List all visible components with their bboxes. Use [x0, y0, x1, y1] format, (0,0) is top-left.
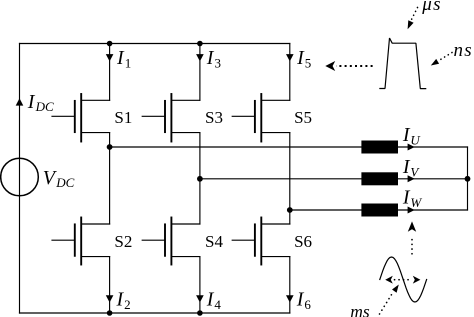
wire star tie	[467, 147, 469, 210]
node V	[197, 176, 203, 182]
svg-text:I: I	[116, 47, 125, 69]
current arrow I2	[106, 295, 114, 302]
wire S6 source to bottom rail corner	[289, 257, 291, 313]
svg-text:V: V	[410, 165, 420, 180]
label I4	[206, 288, 222, 312]
svg-text:U: U	[410, 132, 421, 147]
current arrow IV	[408, 175, 415, 182]
wire leg2 drain (top rail to S3)	[199, 44, 201, 101]
node U	[107, 144, 113, 150]
transistor S1	[52, 94, 110, 142]
svg-text:W: W	[410, 195, 422, 210]
dotted arrow sine to IW	[408, 221, 416, 253]
svg-text:S3: S3	[205, 108, 223, 127]
node W	[287, 207, 293, 213]
wire left DC bus	[19, 44, 21, 314]
dotted double arrow sine period	[385, 276, 420, 284]
node top rail leg2	[197, 41, 203, 47]
wire top rail	[20, 43, 290, 45]
svg-text:I: I	[27, 91, 36, 113]
svg-text:5: 5	[305, 55, 312, 70]
load U	[361, 141, 398, 154]
label microseconds	[421, 0, 442, 15]
svg-text:S2: S2	[114, 232, 132, 251]
wire node U to S2 drain	[109, 147, 111, 224]
label I3	[206, 47, 221, 71]
current arrow I5	[286, 54, 294, 61]
transistor S6	[232, 218, 290, 265]
label S5	[294, 108, 312, 127]
svg-text:3: 3	[215, 55, 222, 70]
current arrow I3	[196, 54, 204, 61]
current arrow IW	[408, 207, 415, 214]
svg-text:1: 1	[125, 55, 132, 70]
svg-text:μs: μs	[421, 0, 442, 15]
label S6	[294, 232, 312, 251]
transistor S2	[52, 218, 110, 265]
current arrow I1	[106, 54, 114, 61]
wire S1 source to node U	[109, 133, 111, 147]
label S4	[205, 232, 223, 251]
label I1	[116, 47, 131, 71]
svg-text:S5: S5	[294, 108, 312, 127]
label I6	[296, 288, 312, 312]
current arrow IU	[408, 144, 415, 151]
wire node V to S4 drain	[199, 179, 201, 224]
label IW	[402, 186, 423, 210]
svg-text:ms: ms	[350, 301, 370, 317]
wire S2 source to bottom rail	[109, 257, 111, 313]
wire leg3 drain (top rail corner to S5)	[289, 44, 291, 101]
wire phase W	[290, 209, 468, 211]
svg-text:2: 2	[124, 297, 131, 312]
svg-text:ns: ns	[454, 40, 474, 61]
transistor S3	[142, 94, 200, 142]
dotted arrow ms to sine	[380, 285, 399, 315]
dotted arrow pulse to inverter	[325, 61, 372, 71]
label IV	[402, 156, 421, 180]
wire S5 source to node W	[289, 133, 291, 210]
dotted arrow ns to pulse	[431, 53, 452, 66]
transistor S4	[142, 218, 200, 265]
label I5	[296, 47, 311, 71]
svg-text:I: I	[206, 47, 215, 69]
wire S4 source to bottom rail	[199, 257, 201, 313]
wire bottom rail	[20, 312, 290, 314]
node star point	[465, 176, 471, 182]
wire node W to S6 drain	[289, 210, 291, 224]
label S3	[205, 108, 223, 127]
transistor S5	[232, 94, 290, 142]
label VDC	[43, 167, 75, 190]
svg-text:S1: S1	[114, 108, 132, 127]
current arrow I4	[196, 295, 204, 302]
pulse waveform	[380, 38, 426, 89]
svg-text:DC: DC	[55, 175, 74, 190]
dotted arrow microseconds to pulse	[408, 8, 418, 30]
load W	[361, 204, 398, 217]
label S1	[114, 108, 132, 127]
label I2	[116, 288, 131, 312]
label IU	[402, 124, 422, 148]
voltage source VDC	[1, 158, 39, 196]
label ms	[350, 301, 370, 317]
label S2	[114, 232, 132, 251]
current arrow IDC	[16, 98, 24, 105]
current arrow I6	[286, 295, 294, 302]
sine wave	[380, 257, 427, 302]
node top rail leg1	[107, 41, 113, 47]
wire leg1 drain (top rail to S1)	[109, 44, 111, 101]
label ns	[454, 40, 474, 61]
svg-text:4: 4	[214, 297, 221, 312]
node bottom rail leg2	[197, 310, 203, 316]
svg-text:DC: DC	[35, 99, 54, 114]
wire phase U	[110, 146, 468, 148]
wire phase V	[200, 178, 468, 180]
node bottom rail leg1	[107, 310, 113, 316]
svg-text:6: 6	[304, 297, 311, 312]
svg-text:I: I	[296, 47, 305, 69]
load V	[361, 172, 398, 185]
svg-text:S6: S6	[294, 232, 312, 251]
svg-text:S4: S4	[205, 232, 223, 251]
wire S3 source to node V	[199, 133, 201, 179]
label IDC	[27, 91, 54, 114]
